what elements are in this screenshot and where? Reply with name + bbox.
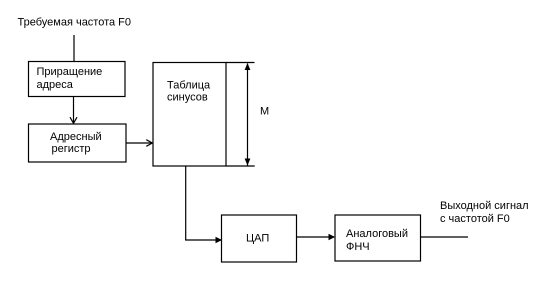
svg-text:Выходной сигнал: Выходной сигнал [440,200,529,212]
wire input label to block Приращение адреса [73,35,75,62]
arrowhead into Таблица синусов [146,140,153,147]
svg-text:адреса: адреса [37,79,74,91]
block U5 Аналоговый ФНЧ [335,215,421,261]
node output label [440,200,529,225]
svg-text:Приращение: Приращение [37,66,103,78]
dimension arrow M (double headed) [245,63,251,166]
block U3 Таблица синусов [153,63,226,167]
svg-text:M: M [260,106,269,118]
svg-text:Аналоговый: Аналоговый [346,228,408,240]
tick extension of sine table top edge [226,62,255,64]
svg-text:ЦАП: ЦАП [246,233,269,245]
wire output [421,236,469,238]
svg-text:Адресный: Адресный [50,131,102,143]
svg-text:Таблица: Таблица [167,80,211,92]
block U1 Приращение адреса [29,62,126,97]
svg-text:Требуемая частота F0: Требуемая частота F0 [18,17,132,29]
wire Адресный регистр to Таблица синусов [126,142,152,144]
svg-text:синусов: синусов [167,92,208,104]
wire DAC to analog LPF [297,236,335,238]
svg-text:регистр: регистр [52,143,91,155]
wire horizontal into DAC [185,239,221,241]
tick extension of sine table bottom edge [226,165,255,167]
arrowhead into DAC [216,237,223,243]
block U4 ЦАП [222,215,297,262]
wire sine table down leg [185,166,187,240]
svg-text:с частотой F0: с частотой F0 [440,213,510,225]
arrowhead into analog LPF [329,234,336,240]
svg-text:ФНЧ: ФНЧ [346,241,370,253]
arrowhead into Адресный регистр [70,117,77,123]
block U2 Адресный регистр [29,124,127,162]
wire Приращение адреса to Адресный регистр [73,97,75,123]
